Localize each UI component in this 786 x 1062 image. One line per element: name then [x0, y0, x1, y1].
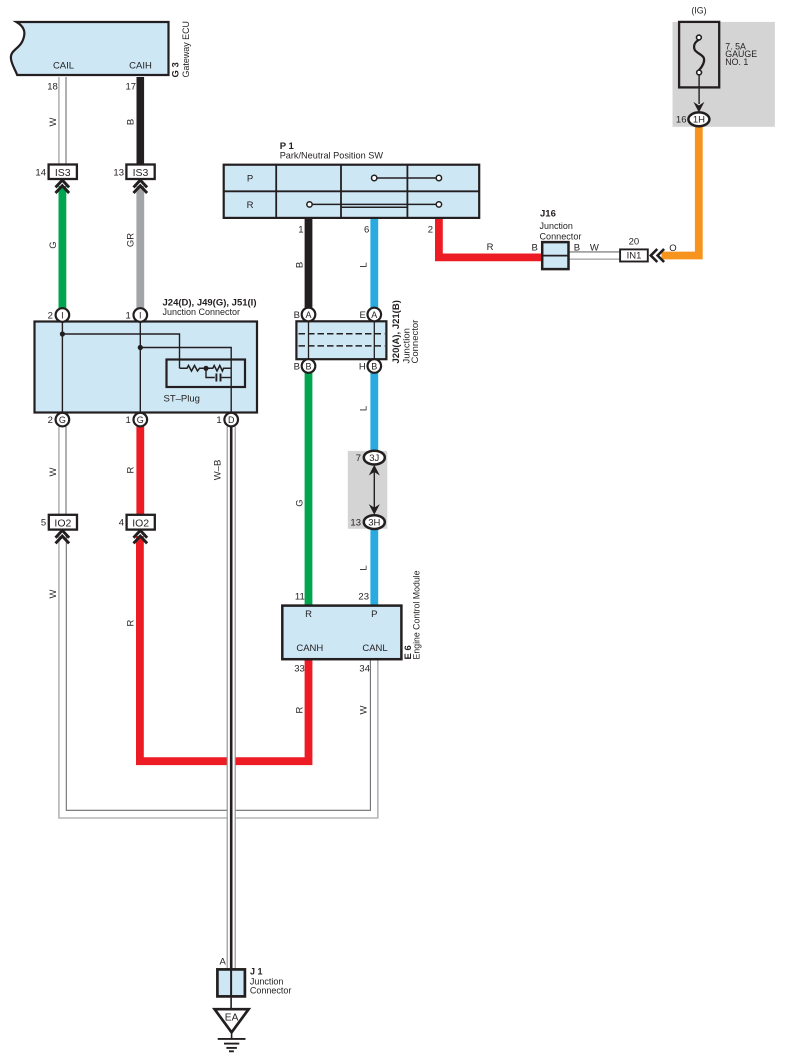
svg-text:23: 23 [358, 592, 369, 603]
shaded block 3J/3H [348, 451, 388, 529]
svg-text:1: 1 [216, 415, 221, 426]
svg-text:R: R [305, 609, 312, 620]
capacitor branch [206, 368, 215, 377]
resistor 1 [180, 366, 207, 372]
svg-text:I: I [139, 310, 142, 320]
svg-text:IO2: IO2 [132, 517, 149, 529]
ground EA [230, 996, 232, 1009]
connector IS3 pin 13 [126, 165, 154, 180]
svg-text:1H: 1H [693, 115, 705, 126]
wire B from P1 pin 1 to J20 pin A [305, 218, 313, 308]
svg-text:P: P [371, 609, 377, 620]
splice 3J oval [364, 451, 385, 465]
P1 contact P row [374, 177, 439, 179]
wire L from J20 pin B to 3J [370, 373, 378, 452]
arrow from fuse to 1H [698, 75, 700, 104]
svg-text:7: 7 [356, 453, 361, 464]
svg-text:B: B [532, 243, 538, 254]
svg-text:W–B: W–B [213, 460, 224, 481]
svg-text:34: 34 [359, 664, 370, 675]
label G on green wire to ECM [295, 499, 306, 506]
svg-text:Connector: Connector [250, 986, 292, 996]
svg-text:CANL: CANL [362, 643, 387, 654]
shaded relay block background top right [673, 22, 775, 127]
wire W from J16 to IN1 [569, 252, 621, 259]
label R under ECM pin 33 [295, 706, 306, 713]
wire R from P1 pin 2 to J16 [439, 218, 542, 257]
svg-text:R: R [125, 466, 136, 473]
J20 pin B right [368, 359, 382, 373]
svg-text:IS3: IS3 [55, 167, 71, 179]
svg-text:Connector: Connector [410, 320, 421, 364]
wire O from IN1 chevron to fuse 1H [662, 126, 699, 255]
label G on green wire [48, 241, 59, 248]
J24 pin 1G [134, 413, 148, 427]
svg-text:20: 20 [629, 237, 640, 248]
svg-text:W: W [359, 705, 370, 714]
svg-text:IO2: IO2 [54, 517, 71, 529]
wire L from 3H to ECM pin 23 [370, 529, 378, 606]
wire W-B from J24 pin 1D to J1 pin A [227, 427, 235, 970]
svg-text:G: G [59, 415, 66, 425]
label L below 3H [359, 565, 370, 570]
wire B from Gateway CAIH pin 17 to IS3 [137, 77, 145, 165]
label W on bottom white wire [48, 589, 59, 598]
svg-text:L: L [359, 565, 370, 570]
J20 pin B left [302, 359, 316, 373]
J24 pin 1D [224, 413, 238, 427]
svg-text:B: B [294, 361, 300, 372]
svg-text:IS3: IS3 [133, 167, 149, 179]
svg-text:18: 18 [47, 82, 58, 93]
arrow between 3J and 3H [373, 470, 375, 509]
svg-text:D: D [228, 415, 235, 425]
resistor 2 [206, 366, 231, 372]
J24 pin 2G [56, 413, 70, 427]
svg-text:1: 1 [298, 224, 303, 235]
svg-text:G: G [48, 241, 59, 248]
splice 1H oval [688, 112, 709, 126]
svg-text:B: B [294, 310, 300, 321]
connector IS3 pin 14 [49, 165, 77, 180]
wire GR from IS3-13 to J24 pin 1I [136, 186, 144, 308]
svg-text:G: G [295, 499, 306, 506]
junction dot between resistors [203, 366, 208, 371]
svg-text:2: 2 [48, 310, 53, 321]
svg-text:EA: EA [225, 1013, 239, 1024]
Gateway ECU G3 box [11, 22, 169, 75]
svg-text:3J: 3J [369, 453, 379, 464]
svg-text:GR: GR [125, 233, 136, 247]
junction connector J20(A), J21(B) box [296, 321, 386, 359]
P1 contact R row [310, 203, 439, 205]
J24 pin 2I [56, 308, 70, 322]
svg-text:CAIH: CAIH [129, 61, 152, 72]
svg-text:2: 2 [428, 224, 433, 235]
svg-text:CANH: CANH [296, 643, 323, 654]
wire W from IO2-5 to ECM pin 34 (white, bottom U route) [59, 536, 378, 818]
svg-text:P: P [247, 173, 253, 184]
wire R from IO2-4 to ECM pin 33 [140, 536, 309, 761]
svg-text:B: B [574, 243, 580, 254]
J24 pin 1I [134, 308, 148, 322]
J20 pin A left [302, 308, 316, 322]
wire W from Gateway CAIL pin 18 to IS3 [59, 77, 66, 165]
svg-text:O: O [669, 243, 676, 254]
svg-text:3H: 3H [368, 517, 380, 528]
splice 3H oval [364, 515, 385, 529]
connector IO2 pin 4 [127, 515, 155, 530]
wire R from J24 pin 1G to IO2-4 [136, 427, 144, 516]
label B on P1 pin 1 wire [295, 262, 306, 268]
label W under ECM pin 34 [359, 705, 370, 714]
wire G from IS3-14 to J24 pin 2I [59, 186, 67, 308]
svg-text:E: E [359, 310, 365, 321]
svg-text:33: 33 [294, 664, 305, 675]
wire labels below J24 [48, 467, 59, 476]
label R on bottom red wire [125, 619, 136, 626]
J20 pin A right [368, 308, 382, 322]
svg-text:Engine Control Module: Engine Control Module [412, 571, 423, 660]
svg-text:R: R [125, 619, 136, 626]
wire L from P1 pin 6 to J20 pin A right [370, 218, 378, 308]
svg-text:NO. 1: NO. 1 [725, 57, 748, 67]
svg-text:R: R [487, 242, 494, 253]
connector IO2 pin 5 [49, 515, 77, 530]
label L above 3J [359, 406, 370, 411]
svg-text:A: A [219, 957, 226, 968]
svg-text:A: A [305, 310, 311, 320]
svg-text:B: B [371, 361, 377, 371]
svg-text:11: 11 [295, 592, 305, 603]
svg-text:Junction: Junction [540, 221, 573, 232]
label L on P1 pin 6 wire [359, 262, 370, 267]
label B on CAIH wire [125, 119, 136, 125]
ECM E6 box [282, 606, 401, 660]
svg-text:1: 1 [126, 310, 131, 321]
svg-text:14: 14 [35, 168, 46, 179]
svg-text:13: 13 [113, 168, 124, 179]
svg-text:W: W [590, 243, 599, 254]
svg-text:G: G [137, 415, 144, 425]
svg-text:17: 17 [126, 82, 137, 93]
svg-text:R: R [295, 706, 306, 713]
ST-Plug box [167, 360, 246, 388]
svg-text:I: I [61, 310, 64, 320]
svg-text:Park/Neutral Position SW: Park/Neutral Position SW [280, 151, 383, 162]
svg-text:(IG): (IG) [691, 5, 706, 15]
wire G from J20 pin B to ECM pin 11 [305, 373, 313, 606]
chevron left IN1 [651, 249, 658, 262]
svg-text:W: W [48, 467, 59, 476]
svg-text:4: 4 [119, 518, 124, 529]
svg-text:13: 13 [350, 518, 361, 529]
label R on wire to J16 [487, 242, 494, 253]
svg-text:B: B [305, 361, 311, 371]
svg-text:CAIL: CAIL [53, 61, 74, 72]
svg-text:J16: J16 [540, 209, 556, 220]
svg-text:A: A [371, 310, 377, 320]
svg-text:IN1: IN1 [627, 251, 642, 262]
label GR on gray wire [125, 233, 136, 247]
svg-text:6: 6 [364, 224, 369, 235]
label W on CAIL wire [48, 117, 59, 126]
svg-text:1: 1 [126, 415, 131, 426]
J24 internal wiring [60, 322, 231, 413]
svg-text:L: L [359, 262, 370, 267]
svg-text:R: R [247, 200, 254, 211]
wire W from J24 pin 2G to IO2-5 [59, 427, 66, 516]
svg-text:L: L [359, 406, 370, 411]
svg-text:Gateway ECU: Gateway ECU [181, 21, 192, 78]
svg-text:ST–Plug: ST–Plug [164, 394, 200, 405]
svg-text:H: H [359, 361, 366, 372]
svg-text:B: B [295, 262, 306, 268]
svg-text:W: W [48, 117, 59, 126]
svg-text:16: 16 [676, 115, 687, 126]
svg-text:W: W [48, 589, 59, 598]
svg-text:Junction Connector: Junction Connector [163, 307, 241, 318]
svg-text:B: B [125, 119, 136, 125]
svg-text:Connector: Connector [540, 231, 582, 242]
svg-text:2: 2 [48, 415, 53, 426]
svg-text:J 1: J 1 [250, 967, 263, 977]
svg-text:5: 5 [41, 518, 46, 529]
